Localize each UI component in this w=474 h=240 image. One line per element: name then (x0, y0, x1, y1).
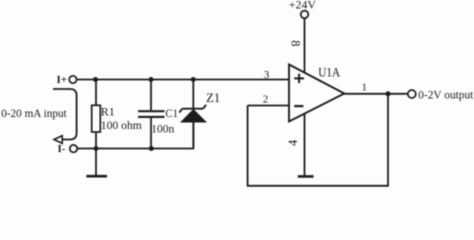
svg-text:3: 3 (264, 69, 270, 81)
wire C1 bottom lead (150, 118, 152, 149)
junction dot output feedback (386, 91, 391, 96)
svg-text:Z1: Z1 (206, 91, 220, 105)
junction dot bottom rail C1 (149, 146, 154, 151)
wire ground lead below I- rail (95, 149, 97, 176)
wire top rail I+ to pin 3 (77, 79, 289, 81)
capacitor C1 (138, 111, 165, 117)
junction dot top rail Z1 (191, 77, 196, 82)
svg-text:I-: I- (58, 143, 66, 155)
junction dot bottom rail R1 (94, 146, 99, 151)
input direction arrow (54, 136, 62, 144)
ground symbol left (86, 175, 107, 178)
svg-text:4: 4 (286, 139, 300, 146)
svg-text:100n: 100n (151, 122, 174, 136)
wire pin 2 input (248, 105, 289, 107)
input current loop bracket (53, 89, 77, 140)
wire R1 bottom lead (95, 132, 97, 149)
svg-text:1: 1 (362, 82, 368, 94)
wire feedback loop output to pin 2 (248, 94, 388, 186)
terminal output (408, 90, 416, 98)
zener diode Z1 (179, 105, 206, 149)
wire R1 top lead (95, 80, 97, 106)
wire pin 4 down (304, 114, 306, 177)
junction dot top rail C1 (149, 77, 154, 82)
svg-text:I+: I+ (57, 74, 68, 86)
wire C1 top lead (150, 80, 152, 111)
wire output (344, 93, 408, 95)
svg-text:0-20 mA input: 0-20 mA input (1, 106, 67, 120)
svg-text:100 ohm: 100 ohm (101, 118, 143, 132)
svg-text:+24V: +24V (289, 0, 316, 11)
wire pin 8 to +24V (304, 18, 306, 73)
op-amp plus input symbol (294, 74, 304, 83)
svg-text:0-2V output: 0-2V output (418, 88, 474, 102)
svg-text:8: 8 (289, 40, 303, 46)
svg-text:R1: R1 (101, 105, 115, 119)
wire Z1 top lead (192, 80, 194, 109)
terminal I+ (69, 76, 76, 83)
wire bottom rail I- (77, 122, 193, 149)
terminal I- (70, 145, 77, 152)
op-amp minus input symbol (294, 105, 303, 107)
svg-text:U1A: U1A (318, 65, 340, 79)
svg-text:2: 2 (263, 94, 269, 106)
resistor R1 (92, 105, 101, 132)
ground symbol pin 4 (298, 175, 314, 178)
op-amp U1A (289, 65, 344, 122)
junction dot top rail R1 (93, 77, 98, 82)
svg-text:C1: C1 (165, 106, 178, 120)
terminal +24V (301, 11, 309, 19)
